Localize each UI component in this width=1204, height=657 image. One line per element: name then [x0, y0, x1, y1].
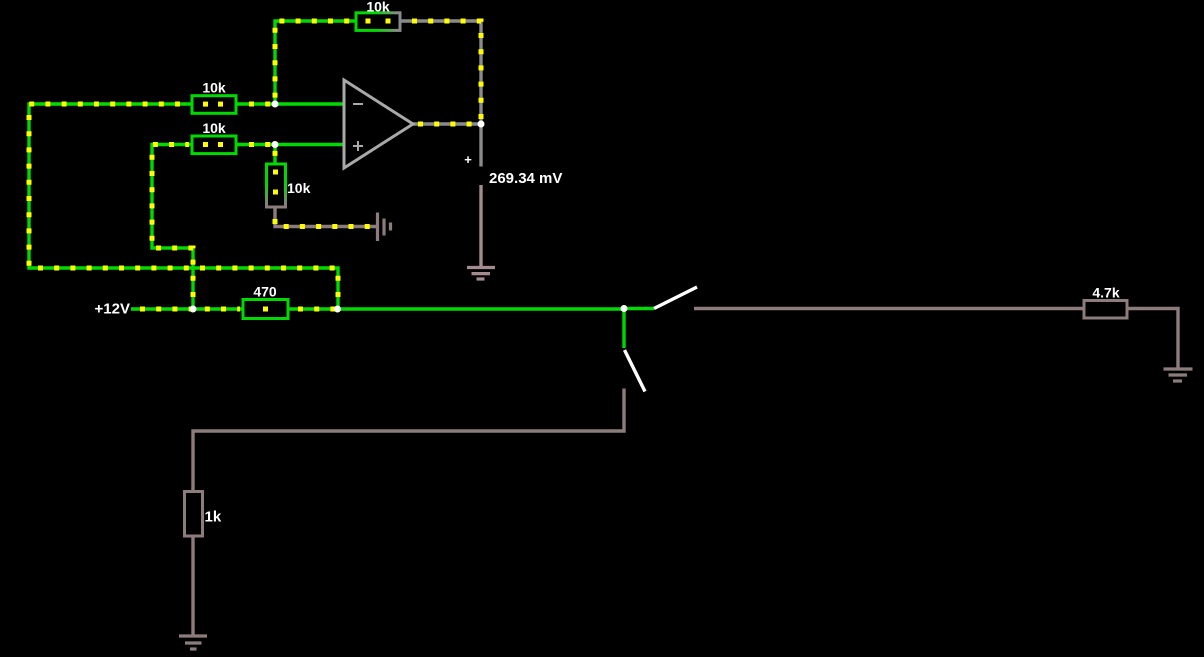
- current dots: feedback resistor right to output corner: [404, 21, 481, 121]
- wire R2 right to node J3: [236, 143, 275, 146]
- resistor Rf 10k (feedback): [356, 0, 400, 30]
- resistor R1 10k (inverting input): [192, 80, 236, 114]
- wire R1 right to node J1: [236, 102, 275, 105]
- wire S1 right contact to resistor 4.7k (taupe): [694, 307, 1084, 310]
- svg-text:+12V: +12V: [95, 301, 130, 318]
- node J1: [272, 101, 279, 108]
- wire R3 bottom to ground G1 (taupe): [275, 207, 376, 227]
- wire J3 to op-amp non-inverting input: [275, 143, 344, 146]
- wire resistor 470 right to node J4: [288, 307, 338, 310]
- resistor R2 10k (non-inverting input): [192, 120, 236, 154]
- current dots: R2 right through J3, down to R3: [240, 145, 275, 162]
- current dots: divider from J5 up to R2: [152, 145, 193, 306]
- ground G4: [467, 268, 495, 280]
- svg-text:269.34 mV: 269.34 mV: [489, 170, 562, 187]
- node J2 (output): [478, 121, 485, 128]
- svg-text:4.7k: 4.7k: [1092, 285, 1119, 301]
- wire +12V stub to node J5: [131, 307, 193, 310]
- switch S1 (open, horizontal): [654, 287, 697, 309]
- node J3: [272, 141, 279, 148]
- wire J1 to op-amp inverting input: [275, 102, 344, 105]
- wire probe upper lead from J2: [479, 124, 482, 167]
- svg-text:+: +: [464, 152, 472, 167]
- ground G1 (right-facing): [378, 213, 391, 242]
- wire divider: J5 up, left, up to R2 row, right to R2: [152, 145, 193, 310]
- wire S2 lower contact down, across left, down to 1k: [193, 389, 624, 494]
- current dot inside resistor 470: [263, 307, 268, 312]
- current dots: op-amp output: [418, 122, 476, 127]
- svg-text:10k: 10k: [366, 0, 390, 15]
- svg-text:1k: 1k: [205, 509, 222, 526]
- node J6 (switch): [621, 305, 628, 312]
- wire switch S1 lead (green): [624, 307, 654, 310]
- wire feedback resistor right to corner and down to output node J2 (gray): [400, 21, 481, 124]
- resistor R6 1k: [185, 492, 222, 537]
- svg-text:10k: 10k: [202, 120, 226, 136]
- current dots: left loop: [29, 104, 338, 305]
- wire switch S2 lead down (green): [622, 309, 625, 349]
- node J5: [190, 306, 197, 313]
- svg-text:10k: 10k: [287, 180, 311, 196]
- wire main rail J4 to switch node J6: [338, 307, 624, 310]
- resistor R3 10k (vertical, to ground): [267, 164, 311, 207]
- op-amp U1: [344, 80, 413, 168]
- wire op-amp output to J2 (gray): [413, 122, 481, 125]
- wire left loop: J4 up, across to far left, up to R1 row, right to R1: [29, 104, 338, 309]
- svg-text:470: 470: [253, 284, 277, 300]
- wire 4.7k right to corner down to ground G2: [1127, 309, 1178, 370]
- wire probe lower lead to ground G4: [479, 185, 482, 267]
- ground G2: [1164, 369, 1193, 381]
- switch S2 (open, vertical): [625, 350, 646, 392]
- node J4: [334, 306, 341, 313]
- current dots inside resistor R3: [273, 170, 278, 195]
- svg-text:10k: 10k: [202, 80, 226, 96]
- wire J3 down to resistor R3 top: [273, 145, 276, 165]
- current dots inside resistor R1: [203, 102, 223, 107]
- resistor R4 470: [243, 284, 288, 319]
- wire J5 to resistor 470 left: [193, 307, 243, 310]
- resistor R5 4.7k: [1084, 285, 1127, 319]
- current dots: R1 right to J1 up to feedback resistor: [240, 21, 353, 104]
- current dots inside resistor R2: [203, 142, 223, 147]
- current dots inside feedback resistor: [366, 19, 391, 24]
- wire 1k bottom to ground G3: [191, 536, 194, 635]
- ground G3: [179, 636, 207, 649]
- current dots: R3 bottom to ground G1: [275, 210, 370, 227]
- wire feedback: J1 up and along top to feedback resistor: [275, 21, 356, 104]
- current dots: +12V stub and 470 run: [133, 307, 240, 312]
